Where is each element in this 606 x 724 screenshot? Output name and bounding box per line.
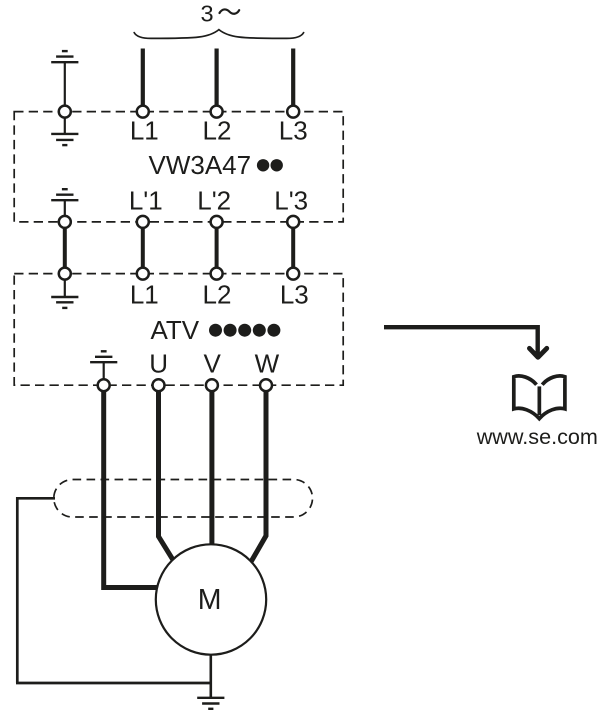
terminal circle ground (filter bottom) [59, 216, 71, 228]
wire motor frame to earth [210, 650, 213, 698]
wire shield bonding along bottom [16, 682, 211, 685]
terminal circle L3 (filter top) [287, 106, 299, 118]
svg-text:L'1: L'1 [129, 186, 163, 216]
terminal circle W [260, 379, 272, 391]
svg-text:W: W [255, 349, 280, 379]
terminal circle L'1 [137, 216, 149, 228]
terminal circle L2 (drive top) [211, 268, 223, 280]
drive box ATV (dashed) [14, 274, 343, 386]
motor M [156, 544, 266, 654]
terminal circle L2 (filter top) [211, 106, 223, 118]
terminal circle L'3 [287, 216, 299, 228]
terminal circle U [153, 379, 165, 391]
terminal circle L'2 [211, 216, 223, 228]
wire supply L2 [215, 49, 219, 112]
filter box VW3A47 (dashed) [14, 112, 343, 222]
arrow to documentation [384, 327, 547, 357]
earth symbol inside filter box top [51, 112, 78, 146]
earth symbol inside drive box top [51, 274, 78, 308]
wire W to motor [250, 385, 266, 563]
label ATV with bullets [151, 315, 281, 345]
wire shield bonding down left side [16, 497, 19, 683]
terminal circle L1 (drive top) [137, 268, 149, 280]
wire L'3 to drive L3 [291, 222, 295, 274]
wire ground link filter to drive [63, 222, 67, 274]
svg-text:U: U [149, 349, 168, 379]
terminal circle ground (drive bottom) [98, 379, 110, 391]
earth symbol below motor [197, 698, 224, 709]
label 3~ (three-phase supply) [200, 0, 239, 26]
inverted earth symbol above filter box bottom terminal [51, 189, 78, 222]
svg-text:L1: L1 [130, 280, 159, 310]
wire V to motor [209, 385, 214, 547]
svg-text:V: V [204, 349, 222, 379]
svg-text:www.se.com: www.se.com [476, 424, 598, 449]
wire motor ground (thick, from drive to motor) [104, 385, 160, 587]
wire supply L1 [141, 49, 145, 112]
inverted earth symbol above filter box [51, 51, 78, 112]
wire L'1 to drive L1 [141, 222, 145, 274]
svg-text:VW3A47: VW3A47 [149, 150, 252, 180]
terminal circle V [206, 379, 218, 391]
label VW3A47 with bullets [149, 150, 283, 180]
svg-text:L'2: L'2 [197, 186, 231, 216]
brace over supply lines [134, 30, 303, 39]
svg-text:L3: L3 [280, 280, 309, 310]
book icon (open manual) [514, 376, 565, 419]
inverted earth symbol above drive output ground terminal [90, 351, 117, 385]
wire supply L3 [291, 49, 295, 112]
terminal circle L3 (drive top) [287, 268, 299, 280]
terminal circle ground (filter top) [59, 106, 71, 118]
svg-text:L1: L1 [130, 116, 159, 146]
svg-text:ATV: ATV [151, 315, 200, 345]
svg-text:L3: L3 [279, 116, 308, 146]
wire L'2 to drive L2 [215, 222, 219, 274]
wire U to motor [159, 385, 175, 563]
svg-text:M: M [198, 584, 222, 616]
svg-text:L2: L2 [203, 116, 232, 146]
cable shield clamp (dashed capsule) [54, 480, 313, 518]
terminal circle L1 (filter top) [137, 106, 149, 118]
svg-text:L'3: L'3 [274, 186, 308, 216]
svg-text:L2: L2 [203, 280, 232, 310]
terminal circle ground (drive top) [59, 268, 71, 280]
wire shield bonding to clamp [16, 497, 55, 500]
svg-text:3: 3 [200, 0, 213, 26]
